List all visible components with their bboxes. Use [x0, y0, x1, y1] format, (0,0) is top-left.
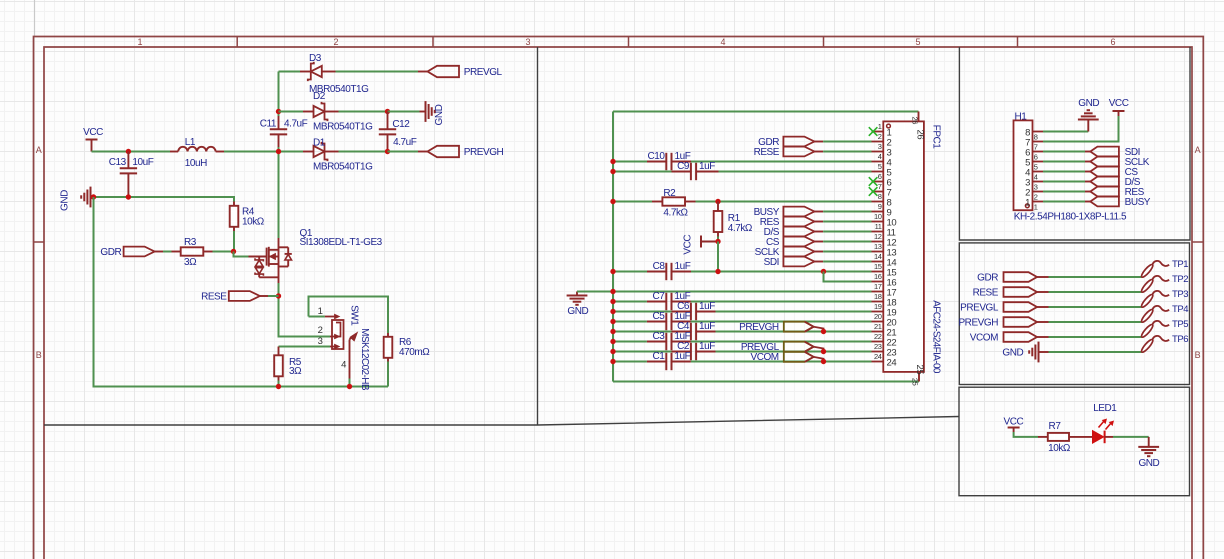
capacitor C10 [647, 151, 691, 170]
wire [823, 251, 871, 253]
section box [959, 243, 1189, 385]
svg-text:GND: GND [1138, 458, 1159, 469]
port VCOM [750, 352, 823, 363]
test point TP2 [1140, 274, 1188, 294]
capacitor C2 [672, 341, 716, 360]
wire [349, 379, 351, 387]
wire [279, 283, 331, 337]
connector FPC1 [883, 121, 941, 373]
junction [610, 349, 615, 354]
section divider [44, 417, 959, 426]
svg-text:TP3: TP3 [1172, 289, 1188, 300]
junction [276, 293, 281, 298]
no-connect flag [869, 177, 878, 186]
svg-text:GND: GND [1002, 347, 1023, 358]
svg-text:A: A [36, 145, 42, 155]
resistor R5 [274, 347, 302, 381]
wire [268, 295, 279, 297]
test point TP4 [1140, 304, 1188, 324]
svg-text:15: 15 [874, 262, 882, 271]
junction [276, 384, 281, 389]
junction [610, 169, 615, 174]
wire [1113, 436, 1149, 438]
svg-text:1: 1 [878, 122, 882, 131]
svg-text:R2: R2 [663, 188, 676, 199]
ground [1002, 342, 1048, 363]
svg-text:1: 1 [1034, 202, 1038, 211]
svg-text:470mΩ: 470mΩ [399, 347, 430, 358]
port RES [760, 217, 823, 228]
connector H1 pins [1025, 127, 1043, 211]
no-connect flag [869, 187, 878, 196]
svg-text:14: 14 [874, 252, 882, 261]
ground [1078, 98, 1099, 132]
svg-text:PREVGL: PREVGL [464, 67, 503, 78]
wire [339, 151, 388, 153]
svg-text:10kΩ: 10kΩ [1048, 443, 1071, 454]
port VCOM [970, 332, 1049, 343]
wire [339, 111, 388, 113]
svg-text:GND: GND [1078, 98, 1099, 109]
resistor R4 [230, 202, 265, 232]
junction [610, 289, 615, 294]
svg-text:8: 8 [1034, 132, 1038, 141]
svg-text:VCC: VCC [1109, 98, 1129, 109]
no-connect flag [869, 127, 878, 136]
svg-text:4.7uF: 4.7uF [393, 137, 417, 148]
port SDI [1085, 147, 1140, 158]
junction [231, 249, 236, 254]
svg-text:GND: GND [434, 104, 445, 125]
junction [610, 269, 615, 274]
port GDR [100, 247, 163, 258]
wire [309, 297, 389, 334]
svg-text:C12: C12 [392, 119, 410, 130]
junction [610, 339, 615, 344]
svg-text:24: 24 [874, 352, 882, 361]
svg-text:TP1: TP1 [1172, 259, 1188, 270]
test point TP5 [1140, 319, 1188, 339]
svg-text:11: 11 [875, 222, 882, 231]
wire [717, 242, 719, 272]
svg-text:10uH: 10uH [185, 158, 207, 169]
svg-text:C13: C13 [109, 157, 127, 168]
svg-text:3Ω: 3Ω [289, 366, 302, 377]
svg-text:2: 2 [333, 37, 338, 47]
wire [719, 171, 872, 173]
svg-text:4: 4 [1034, 172, 1038, 181]
wire [279, 346, 331, 348]
section box [959, 47, 1190, 240]
capacitor C8 [647, 261, 691, 280]
svg-text:D3: D3 [309, 53, 322, 64]
junction [610, 299, 615, 304]
svg-text:B: B [1195, 350, 1201, 360]
wire [716, 351, 872, 353]
svg-text:19: 19 [874, 302, 882, 311]
svg-text:7: 7 [878, 182, 882, 191]
svg-text:23: 23 [874, 342, 882, 351]
wire [823, 211, 871, 213]
svg-text:LED1: LED1 [1093, 403, 1117, 414]
svg-text:5: 5 [878, 162, 882, 171]
svg-text:3: 3 [318, 336, 323, 347]
wire [1014, 432, 1038, 437]
connector H1 [1014, 112, 1128, 223]
ground [60, 187, 94, 211]
junction [715, 199, 720, 204]
capacitor C1 [647, 351, 691, 370]
junction [610, 309, 615, 314]
wire [1069, 436, 1093, 438]
svg-text:FPC1: FPC1 [931, 125, 942, 150]
svg-text:5: 5 [1034, 162, 1038, 171]
wire [691, 321, 872, 323]
svg-text:C5: C5 [653, 311, 666, 322]
svg-text:VCC: VCC [1004, 416, 1024, 427]
svg-text:18: 18 [874, 292, 882, 301]
svg-text:VCC: VCC [683, 235, 694, 255]
junction [126, 149, 131, 154]
wire [613, 311, 672, 313]
capacitor C11 [260, 116, 308, 147]
port SDI [764, 257, 823, 268]
svg-text:4: 4 [720, 37, 725, 47]
svg-text:7: 7 [1034, 142, 1038, 151]
junction [347, 384, 352, 389]
junction [385, 149, 390, 154]
wire [1049, 321, 1142, 323]
wire [613, 111, 919, 113]
svg-text:RESE: RESE [973, 288, 999, 299]
svg-text:16: 16 [874, 272, 882, 281]
svg-text:SW1: SW1 [349, 305, 360, 326]
wire [823, 151, 871, 153]
wire [1043, 201, 1085, 203]
port RESE [201, 291, 268, 302]
wire [233, 231, 235, 252]
port GDR [977, 272, 1048, 283]
svg-text:TP6: TP6 [1172, 334, 1188, 345]
wire [1049, 276, 1142, 278]
connector FPC1 pins [872, 122, 897, 369]
svg-text:C11: C11 [260, 119, 277, 130]
svg-text:SDI: SDI [764, 257, 779, 268]
junction [126, 194, 131, 199]
port BUSY [754, 207, 824, 218]
svg-text:10: 10 [874, 212, 882, 221]
svg-text:C10: C10 [648, 151, 666, 162]
svg-text:2: 2 [1034, 192, 1038, 201]
wire [613, 381, 919, 383]
junction [715, 239, 720, 244]
pin 26 [910, 112, 925, 140]
svg-text:17: 17 [874, 282, 882, 291]
svg-text:1uF: 1uF [674, 351, 690, 362]
wire [823, 141, 871, 143]
svg-text:25: 25 [914, 365, 925, 375]
svg-text:20: 20 [874, 312, 882, 321]
wire [716, 311, 872, 313]
power flag VCC [1109, 98, 1129, 116]
svg-text:VCC: VCC [83, 127, 103, 138]
wire [388, 111, 420, 113]
capacitor C13 [109, 152, 154, 198]
svg-text:B: B [36, 350, 42, 360]
wire [1043, 131, 1088, 133]
svg-text:1uF: 1uF [699, 161, 715, 172]
svg-text:4: 4 [341, 359, 346, 370]
junction [610, 159, 615, 164]
wire [279, 111, 304, 113]
port PREVGH [958, 317, 1048, 328]
port GDR [758, 137, 823, 148]
wire [279, 336, 331, 338]
svg-text:L1: L1 [185, 137, 196, 148]
port PREVGL [418, 66, 503, 78]
svg-text:PREVGH: PREVGH [958, 318, 998, 329]
wire [691, 341, 872, 343]
svg-text:GND: GND [60, 190, 71, 211]
svg-text:VCOM: VCOM [970, 333, 998, 344]
svg-text:1uF: 1uF [675, 261, 691, 272]
ground [1138, 437, 1159, 469]
capacitor C9 [672, 161, 719, 180]
svg-text:6: 6 [878, 172, 882, 181]
svg-text:TP2: TP2 [1172, 274, 1188, 285]
svg-text:TP5: TP5 [1172, 319, 1188, 330]
wire [309, 316, 325, 318]
svg-text:1: 1 [1025, 197, 1030, 208]
wire [613, 361, 647, 363]
wire [234, 252, 249, 257]
svg-text:1uF: 1uF [699, 301, 715, 312]
wire [613, 171, 672, 173]
junction [610, 199, 615, 204]
svg-text:4.7uF: 4.7uF [284, 119, 308, 130]
port PREVGL [741, 342, 824, 353]
svg-text:BUSY: BUSY [1125, 197, 1151, 208]
ground [567, 292, 589, 318]
junction [715, 269, 720, 274]
svg-text:6: 6 [1110, 37, 1115, 47]
svg-text:3: 3 [525, 37, 530, 47]
wire [278, 381, 280, 387]
port D/S [1085, 177, 1141, 188]
svg-text:25: 25 [911, 378, 920, 386]
wire [691, 301, 872, 303]
junction [821, 269, 826, 274]
svg-text:GND: GND [567, 306, 588, 317]
svg-text:4.7kΩ: 4.7kΩ [663, 208, 688, 219]
wire [613, 201, 652, 203]
power flag VCC [83, 127, 103, 151]
svg-text:RESE: RESE [754, 147, 780, 158]
wire [388, 151, 419, 153]
wire [279, 151, 304, 153]
svg-text:MSK12C02-HB: MSK12C02-HB [359, 328, 370, 391]
section box [959, 387, 1190, 496]
wire [387, 362, 389, 387]
junction [821, 359, 826, 364]
junction [276, 109, 281, 114]
svg-text:C1: C1 [653, 351, 666, 362]
wire [691, 361, 872, 363]
svg-text:R3: R3 [184, 237, 197, 248]
capacitor C12 [379, 112, 417, 152]
wire [1043, 191, 1085, 193]
wire [613, 351, 672, 353]
wire [696, 201, 872, 203]
wire [823, 221, 871, 223]
svg-text:24: 24 [887, 357, 897, 368]
wire [691, 161, 872, 163]
resistor R3 [172, 237, 213, 268]
svg-text:21: 21 [874, 322, 882, 331]
wire [1043, 171, 1085, 173]
svg-text:8: 8 [878, 192, 882, 201]
port CS [1085, 167, 1138, 178]
wire [717, 237, 719, 242]
wire [336, 71, 419, 73]
pin 25 [911, 365, 926, 386]
power flag VCC [1004, 416, 1024, 432]
svg-text:MBR0540T1G: MBR0540T1G [313, 162, 373, 173]
resistor R1 [714, 202, 753, 237]
svg-text:H1: H1 [1015, 112, 1028, 123]
diode D2 [303, 91, 373, 133]
section divider [537, 47, 539, 425]
capacitor C3 [647, 331, 691, 350]
wire [612, 112, 614, 382]
svg-text:2: 2 [878, 132, 882, 141]
wire [34, 0, 36, 37]
wire [213, 251, 234, 253]
wire [824, 272, 872, 282]
svg-text:22: 22 [874, 332, 882, 341]
wire [613, 331, 672, 333]
svg-text:MBR0540T1G: MBR0540T1G [313, 121, 373, 132]
svg-text:10uF: 10uF [132, 157, 153, 168]
svg-text:2: 2 [318, 325, 323, 336]
svg-text:AFC24-S24FIA-00: AFC24-S24FIA-00 [931, 300, 942, 374]
wire [613, 321, 647, 323]
svg-text:GDR: GDR [100, 247, 121, 258]
svg-text:3: 3 [1034, 182, 1038, 191]
resistor R2 [652, 188, 696, 219]
port RESE [973, 287, 1049, 298]
junction [610, 329, 615, 334]
switch SW1 [318, 305, 370, 391]
wire [163, 251, 172, 253]
junction [91, 194, 96, 199]
svg-text:KH-2.54PH180-1X8P-L11.5: KH-2.54PH180-1X8P-L11.5 [1014, 211, 1127, 222]
wire [1043, 116, 1119, 142]
port BUSY [1085, 197, 1151, 208]
svg-text:4.7kΩ: 4.7kΩ [728, 223, 753, 234]
wire [1043, 181, 1085, 183]
wire [279, 71, 301, 73]
svg-text:R7: R7 [1049, 421, 1062, 432]
svg-text:9: 9 [878, 202, 882, 211]
svg-text:10kΩ: 10kΩ [242, 217, 265, 228]
capacitor C6 [672, 301, 716, 320]
wire [613, 161, 647, 163]
svg-text:D2: D2 [313, 91, 326, 102]
svg-text:C7: C7 [653, 291, 666, 302]
junction [821, 349, 826, 354]
wire [613, 271, 647, 273]
port D/S [764, 227, 823, 238]
wire [613, 341, 647, 343]
svg-text:5: 5 [915, 37, 920, 47]
port SCLK [1085, 157, 1150, 168]
wire [823, 261, 871, 263]
test point TP1 [1140, 259, 1188, 279]
svg-text:GDR: GDR [977, 273, 998, 284]
wire [823, 241, 871, 243]
wire [94, 197, 389, 387]
wire [1049, 351, 1142, 353]
wire [224, 151, 279, 153]
svg-text:3: 3 [878, 142, 882, 151]
wire [92, 151, 171, 153]
svg-text:RESE: RESE [201, 292, 227, 303]
svg-text:D1: D1 [313, 138, 326, 149]
svg-text:26: 26 [914, 130, 925, 140]
wire [691, 271, 872, 273]
junction [610, 319, 615, 324]
svg-text:VCOM: VCOM [750, 352, 778, 363]
LED LED1 [1093, 403, 1118, 443]
svg-text:SI1308EDL-T1-GE3: SI1308EDL-T1-GE3 [300, 237, 383, 248]
junction [610, 359, 615, 364]
wire [1049, 291, 1142, 293]
junction [385, 109, 390, 114]
wire [613, 301, 647, 303]
port PREVGH [739, 322, 823, 333]
diode D3 [300, 53, 369, 95]
test point TP3 [1140, 289, 1188, 309]
svg-text:C9: C9 [677, 161, 690, 172]
svg-text:1uF: 1uF [699, 341, 715, 352]
capacitor C5 [647, 311, 691, 330]
port CS [766, 237, 823, 248]
junction [276, 149, 281, 154]
resistor R7 [1038, 421, 1071, 454]
svg-text:13: 13 [874, 242, 882, 251]
wire [1043, 151, 1085, 153]
svg-text:1uF: 1uF [699, 321, 715, 332]
wire [278, 152, 280, 239]
svg-text:C3: C3 [653, 331, 666, 342]
wire [716, 331, 872, 333]
wire [577, 291, 872, 293]
port PREVGH [418, 146, 504, 158]
svg-text:PREVGH: PREVGH [739, 322, 779, 333]
svg-text:A: A [1195, 145, 1201, 155]
junction [821, 329, 826, 334]
transistor Q1 [249, 228, 383, 283]
wire [1049, 306, 1142, 308]
wire [1049, 336, 1142, 338]
inductor L1 [170, 137, 224, 169]
svg-text:PREVGL: PREVGL [960, 303, 999, 314]
wire [94, 197, 235, 202]
port RES [1085, 187, 1145, 198]
power flag VCC [683, 235, 719, 255]
svg-text:TP4: TP4 [1172, 304, 1188, 315]
